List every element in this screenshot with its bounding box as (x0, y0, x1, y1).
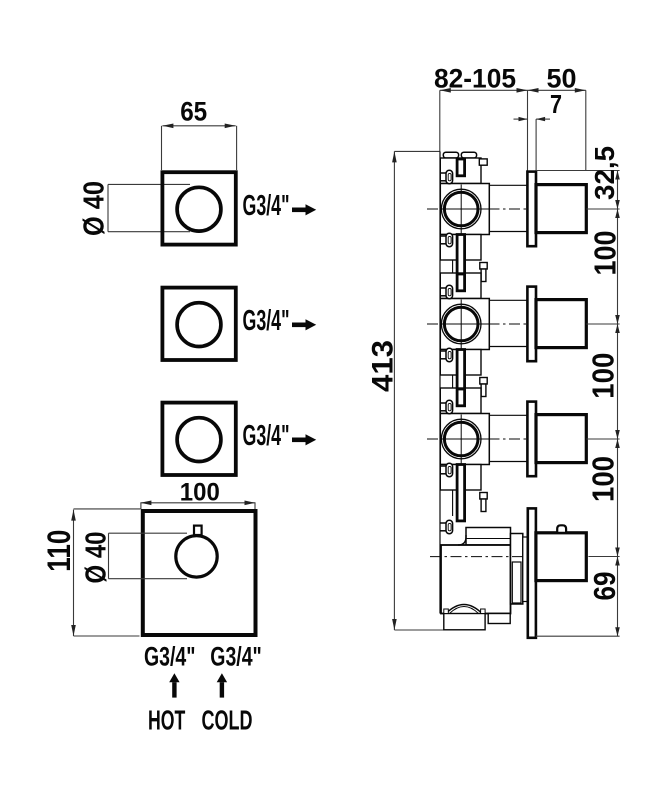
thermostat knob (536, 533, 586, 581)
svg-text:G3/4": G3/4" (144, 642, 196, 672)
svg-text:50: 50 (547, 63, 577, 93)
up arrow hot (169, 673, 179, 697)
chain line (617, 171, 619, 637)
foot dome outer arc (446, 605, 482, 614)
foot dome inner arc (450, 607, 479, 614)
svg-text:COLD: COLD (202, 704, 253, 735)
dia40 bottom bracket lines (109, 533, 188, 579)
ext flange top (536, 170, 620, 172)
ext row 3 (586, 438, 619, 440)
dimension 100 line with arrows (140, 503, 255, 509)
square trim 1 (162, 172, 235, 244)
up arrow cold (217, 673, 227, 697)
thermostat cartridge stack (511, 534, 523, 605)
svg-text:100: 100 (180, 478, 220, 506)
mounting rail inner edge (452, 159, 454, 516)
svg-text:G3/4": G3/4" (243, 305, 290, 337)
square trim 2 (162, 288, 235, 360)
arrow right row 3 (292, 434, 316, 445)
svg-text:32,5: 32,5 (589, 146, 620, 200)
arrow right row 2 (292, 319, 316, 330)
thermostat body block (441, 545, 511, 614)
svg-text:Ø 40: Ø 40 (79, 181, 111, 236)
stack inner detail (512, 562, 521, 603)
valve body back wall (439, 151, 441, 613)
svg-text:HOT: HOT (148, 704, 185, 735)
joint 1-2 (457, 235, 487, 291)
svg-text:G3/4": G3/4" (243, 190, 290, 222)
foot corner right (481, 609, 486, 614)
square trim 3 (162, 403, 235, 475)
dia40 top bracket lines (108, 184, 190, 231)
thermostatic trim plate (big square) (143, 511, 256, 635)
left clip thermostat (440, 520, 453, 534)
thermostat knob circle (176, 536, 217, 577)
top dimension line (440, 90, 586, 170)
dimension 65 line with arrows (162, 126, 237, 170)
svg-text:G3/4": G3/4" (243, 420, 290, 452)
dimension 110 line with arrows (74, 509, 141, 636)
thermostat plate inner line (466, 538, 511, 540)
foot corner left (444, 609, 449, 614)
dimension 413 line with arrows (394, 151, 444, 630)
top mounting tabs (443, 152, 458, 158)
joint 3-4 (457, 465, 487, 521)
ext row 1 (586, 208, 619, 210)
chain arrowheads (615, 171, 620, 637)
outlet stub bottom (488, 614, 510, 624)
foot base (444, 614, 485, 630)
thermostat knob nub (557, 525, 566, 533)
ext row 2 (586, 323, 619, 325)
svg-text:100: 100 (586, 353, 621, 399)
stack narrow collar (523, 537, 528, 602)
module 1 (427, 158, 586, 260)
module 3 (427, 388, 586, 490)
thermostat centerline (430, 556, 528, 558)
knob index nub (194, 526, 202, 535)
joint 2-3 (457, 350, 487, 406)
svg-text:110: 110 (41, 530, 77, 572)
svg-text:G3/4": G3/4" (210, 642, 261, 672)
top bolt module 1 (479, 159, 487, 165)
ext bottom (536, 635, 620, 637)
svg-text:100: 100 (588, 231, 623, 276)
svg-text:Ø 40: Ø 40 (81, 532, 113, 584)
ext row 4 (588, 556, 619, 558)
dimension 7 lines (514, 119, 551, 184)
svg-text:82-105: 82-105 (434, 63, 516, 93)
svg-text:65: 65 (180, 96, 207, 126)
svg-text:7: 7 (550, 91, 562, 119)
svg-text:100: 100 (586, 456, 621, 502)
module 2 (427, 273, 586, 375)
thermostat flange (528, 508, 536, 637)
svg-text:69: 69 (587, 572, 622, 601)
body step arc (458, 535, 466, 545)
thermostat top plate (466, 528, 511, 546)
arrow right row 1 (292, 204, 316, 215)
